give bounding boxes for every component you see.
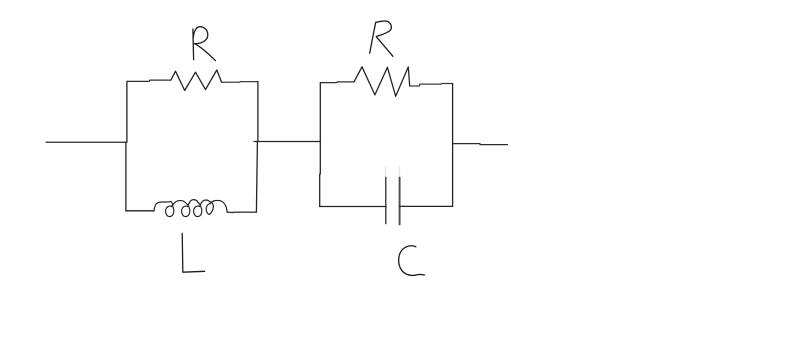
wire right block bottom-right segment — [400, 205, 453, 207]
wire right block top-right segment — [410, 84, 453, 87]
resistor R1 — [171, 70, 222, 91]
label R of R1 — [193, 27, 216, 61]
label L of L1 — [182, 233, 204, 272]
resistor R2 — [354, 67, 410, 97]
wire left block top-right segment — [222, 81, 258, 84]
wire right lead — [453, 144, 508, 145]
wire left block bottom-right segment — [227, 211, 256, 213]
capacitor C1 right plate — [399, 178, 401, 225]
wire right block right edge — [452, 84, 454, 207]
wire left block bottom-left segment — [126, 210, 154, 212]
inductor L1 — [154, 200, 227, 217]
wire left block top-left segment — [127, 80, 171, 81]
wire left block left edge — [126, 81, 127, 211]
label C of C1 — [399, 246, 425, 276]
capacitor C1 left plate — [385, 177, 387, 223]
wire right block left edge — [319, 83, 322, 207]
label R of R2 — [370, 21, 393, 56]
wire middle link — [254, 141, 320, 143]
wire right block bottom-left segment — [320, 206, 387, 208]
wire left block right edge — [256, 82, 258, 213]
capacitor C1 plate ghost stubs — [385, 167, 399, 177]
wire left lead — [46, 141, 126, 143]
wire right block top-left segment — [320, 81, 354, 84]
